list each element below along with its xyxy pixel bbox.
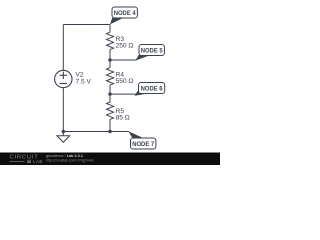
svg-text:http://circuitlab.com/c/74gj7r: http://circuitlab.com/c/74gj7r44x (46, 159, 94, 163)
svg-text:NODE 5: NODE 5 (141, 48, 163, 55)
svg-text:550 Ω: 550 Ω (116, 78, 134, 85)
svg-text:NODE 4: NODE 4 (114, 10, 136, 17)
svg-text:85 Ω: 85 Ω (116, 115, 130, 122)
svg-text:NODE 6: NODE 6 (141, 86, 163, 93)
svg-text:7.5 V: 7.5 V (76, 78, 92, 85)
svg-text:250 Ω: 250 Ω (116, 43, 134, 50)
svg-text:NODE 7: NODE 7 (132, 141, 154, 148)
svg-text:LAB: LAB (33, 159, 43, 164)
svg-text:geocienna / Lab 2.3.1: geocienna / Lab 2.3.1 (46, 154, 83, 158)
